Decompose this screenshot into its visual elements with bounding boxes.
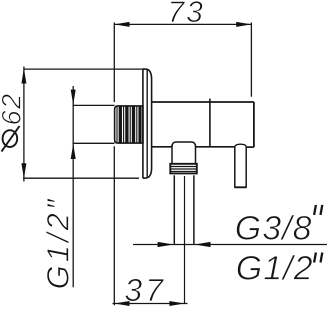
down outlet pipe right edge [193, 175, 195, 244]
down outlet pipe left edge [173, 175, 175, 244]
extension line right (head right edge) [250, 23, 252, 97]
extension line left (wall plane) lower [113, 146, 115, 305]
head right edge [253, 102, 255, 147]
G3/8 double prime [314, 205, 316, 215]
wall flange left edge [142, 69, 144, 178]
down outlet shoulder dome [172, 142, 196, 147]
dimension ø62 line [23, 67, 25, 182]
G1/2 right double prime [314, 253, 316, 263]
wall flange inner edge [146, 69, 148, 178]
dimension 37 right arrow [169, 301, 184, 306]
dimension ø62 bottom arrow [21, 163, 26, 178]
G3/8 pipe left edge [234, 147, 236, 188]
body/head divider [209, 99, 211, 147]
thread top extension line [73, 104, 115, 106]
flange top extension line [24, 68, 143, 70]
leader right-pointing arrow at pipe left [158, 242, 174, 247]
thread block [115, 106, 143, 143]
dimension 73 line [114, 23, 251, 25]
dimension 73 right arrow [236, 22, 251, 27]
G3/8 pipe right edge [245, 147, 247, 188]
G3/8 pipe bottom end [234, 186, 246, 188]
G1/2 left leader line [72, 86, 74, 287]
svg-text:G1/2″: G1/2″ [41, 196, 76, 289]
G3/8 outlet dome [235, 144, 246, 147]
extension line left (wall plane) upper [113, 23, 115, 103]
leader left-pointing arrow at pipe right [195, 242, 211, 247]
dimension 73 left arrow [114, 22, 129, 27]
svg-text:37: 37 [124, 272, 166, 308]
down outlet neck left [171, 146, 173, 165]
pipe axis / extension line [184, 176, 186, 303]
svg-text:62: 62 [0, 92, 27, 125]
valve body bottom edge segment 1 [152, 146, 173, 148]
valve body bottom edge segment 2 [195, 146, 234, 148]
svg-text:G1/2: G1/2 [236, 250, 314, 288]
flange bottom extension line [23, 177, 139, 179]
compression nut ring [170, 164, 197, 174]
svg-text:G3/8: G3/8 [235, 210, 313, 248]
thread bottom extension line [73, 142, 115, 144]
dimension 37 left arrow [114, 301, 129, 306]
diameter symbol of ø62 [3, 130, 18, 147]
leader down arrow at thread top [71, 90, 76, 105]
leader up arrow at thread bottom [71, 144, 76, 159]
right leader line (G1/2) [133, 244, 327, 246]
down outlet neck right [195, 146, 197, 165]
dimension 37 line [113, 303, 188, 305]
dimension ø62 top arrow [21, 68, 26, 83]
valve body top edge [152, 101, 254, 103]
valve body bottom edge segment 3 [246, 146, 254, 148]
wall flange outline (dome silhouette) [143, 69, 152, 178]
